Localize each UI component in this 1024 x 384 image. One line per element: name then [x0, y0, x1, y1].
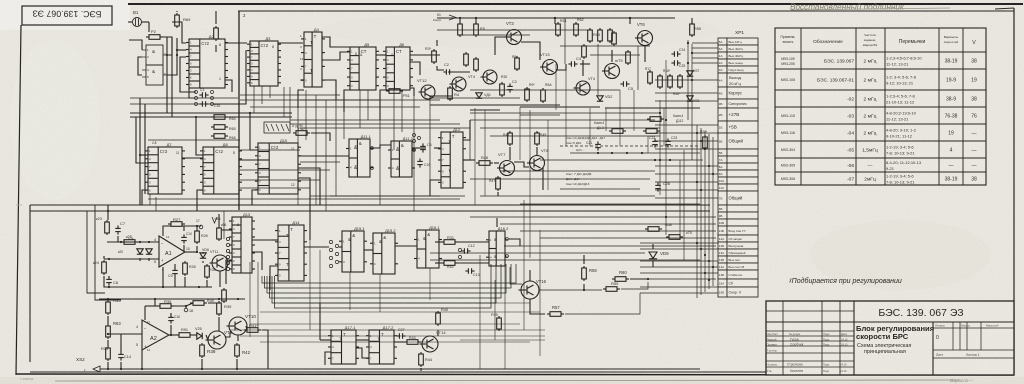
XP1 pin 5Б	[718, 149, 727, 156]
wire	[700, 128, 702, 295]
wire	[437, 330, 439, 336]
resistor R11	[556, 22, 561, 37]
wire	[260, 341, 530, 343]
XP1 pin 14Б Стабилиз.	[718, 270, 727, 279]
wire	[298, 168, 320, 205]
wire	[174, 264, 176, 269]
resistor R68	[645, 227, 662, 232]
capacitor C24	[671, 51, 680, 57]
wire	[590, 54, 640, 56]
capacitor C8	[106, 276, 112, 285]
wire	[142, 49, 146, 51]
resistor R33	[106, 300, 111, 315]
wire	[597, 44, 599, 95]
IC Д17.2	[366, 330, 397, 364]
resistor R8	[515, 56, 520, 71]
wire	[182, 225, 201, 227]
wire	[497, 192, 499, 196]
junction	[583, 289, 585, 291]
wire	[148, 258, 150, 261]
resistor R18b	[668, 74, 673, 89]
wire	[300, 99, 440, 101]
wire	[692, 42, 718, 44]
wire	[202, 261, 204, 263]
XP1 pin 2Б +27В	[718, 108, 727, 121]
junction	[162, 286, 164, 288]
capacitor C19	[417, 158, 423, 167]
wire	[104, 258, 159, 260]
wire	[240, 94, 340, 96]
resistor R66	[211, 134, 228, 139]
wire	[300, 161, 340, 163]
wire	[267, 264, 506, 293]
wire	[222, 229, 232, 231]
wire	[463, 159, 475, 161]
IC Д15.2	[370, 233, 398, 274]
wire	[356, 339, 369, 341]
gate output circles	[506, 238, 509, 241]
wire	[319, 250, 321, 303]
diode VD9	[649, 252, 657, 259]
junction	[696, 132, 698, 134]
wire	[311, 133, 330, 141]
XP1 pin 5А Вых.10Гц	[718, 38, 727, 45]
wire	[370, 145, 391, 148]
wire	[197, 190, 203, 211]
wire	[310, 195, 440, 197]
wire	[580, 63, 590, 65]
jumper pads 20 21	[413, 134, 416, 137]
wire	[107, 205, 109, 220]
junction	[139, 154, 141, 156]
diode VD6	[200, 253, 206, 258]
XP1 pin 14А Вых.счетч.В	[718, 263, 727, 270]
wire	[652, 244, 654, 249]
resistor R70	[666, 235, 683, 240]
resistor R37	[176, 333, 193, 338]
wire	[605, 108, 607, 131]
wire	[142, 56, 146, 58]
wire	[305, 90, 307, 140]
wire	[196, 117, 203, 155]
wire	[246, 326, 247, 330]
wire	[129, 40, 142, 50]
resistor R69b	[647, 117, 664, 122]
junction	[704, 148, 706, 150]
resistor R48	[476, 161, 493, 166]
wire	[611, 50, 613, 62]
wire	[261, 86, 263, 104]
wire	[176, 11, 178, 12]
wire	[144, 104, 146, 194]
wire	[272, 264, 496, 303]
wire	[208, 301, 219, 303]
XP1 pin 11Б Вход Син.Т.Г.	[718, 226, 727, 235]
wire	[319, 303, 321, 340]
junction	[166, 54, 168, 56]
wire	[430, 97, 520, 99]
junction	[654, 159, 656, 161]
XP1 pin 3Б Синхрониз	[718, 99, 727, 108]
dashed wire	[560, 145, 700, 147]
wire	[283, 87, 285, 117]
arrow	[449, 15, 456, 20]
wire	[172, 22, 186, 43]
diode VD1	[476, 93, 482, 98]
wire	[145, 305, 157, 307]
wire	[163, 74, 167, 76]
wire	[325, 100, 327, 211]
wire	[413, 96, 415, 211]
IC Д6	[383, 47, 413, 90]
XP1 pin 15А Сб	[718, 279, 727, 287]
wire	[683, 150, 685, 260]
wire	[655, 197, 718, 199]
transistor VT2	[481, 70, 498, 84]
wire	[148, 139, 240, 141]
wire	[322, 37, 350, 47]
wire	[647, 136, 649, 153]
wire	[652, 261, 654, 267]
wire	[692, 52, 718, 54]
resistor R1a	[458, 22, 463, 37]
resistor R63	[106, 324, 111, 339]
wire	[278, 42, 303, 44]
IC Д11.1	[346, 139, 373, 177]
wire	[185, 251, 196, 253]
IC Д3	[247, 41, 281, 86]
junction	[712, 173, 714, 175]
junction	[700, 189, 702, 191]
wire	[99, 298, 245, 300]
resistor R64	[211, 115, 228, 120]
wire	[520, 114, 560, 116]
wire	[547, 120, 549, 190]
resistor R2b	[214, 26, 219, 41]
wire	[436, 40, 438, 46]
stamp БЭС.139.067 ЭЗ	[22, 6, 112, 25]
wire	[430, 95, 452, 97]
resistor R48*	[678, 74, 683, 89]
IC Д16.2	[486, 231, 508, 266]
junction	[148, 241, 150, 243]
XP1 pin 9А	[718, 170, 727, 177]
bus wire	[30, 210, 710, 212]
wire	[226, 260, 232, 284]
resistor R38	[200, 343, 205, 358]
IC Д15.1	[339, 231, 367, 272]
junction	[708, 165, 710, 167]
IC Д4	[301, 32, 325, 87]
wire	[238, 11, 240, 210]
wire	[564, 18, 566, 64]
resistor R52	[441, 261, 458, 266]
capacitor C28	[655, 182, 661, 191]
crystal B1	[133, 18, 142, 27]
junction	[170, 334, 172, 336]
wire	[196, 226, 198, 229]
wire	[202, 252, 204, 254]
junction	[176, 49, 178, 51]
wire	[240, 335, 545, 337]
wire	[300, 127, 470, 129]
wire	[215, 45, 217, 52]
wire	[219, 271, 221, 287]
wire	[582, 60, 584, 76]
wire	[364, 249, 373, 251]
wire	[692, 47, 718, 49]
resistor R40a	[190, 301, 207, 306]
wire	[640, 242, 718, 244]
junction	[597, 152, 599, 154]
wire	[429, 96, 431, 180]
XP1 pin 7Б Общий	[718, 191, 727, 205]
wire	[520, 106, 600, 108]
wire	[343, 112, 345, 139]
wire	[644, 46, 646, 62]
wire	[309, 240, 311, 330]
resistor R18	[658, 74, 663, 89]
resistor R56	[217, 226, 222, 241]
wire	[87, 211, 105, 293]
junction	[659, 112, 661, 114]
junction	[665, 119, 667, 121]
wire	[344, 90, 350, 112]
resistor R47	[496, 176, 501, 191]
wire	[500, 170, 655, 172]
XP1 pin 15Б Скор. V	[718, 287, 727, 297]
wire	[640, 260, 718, 262]
junction	[141, 368, 143, 370]
wire	[429, 268, 431, 300]
transistor VT16	[519, 281, 540, 299]
wire	[240, 99, 380, 101]
wire	[430, 259, 700, 261]
resistor R62	[574, 22, 579, 37]
wire	[130, 103, 239, 105]
resistor R31	[441, 240, 458, 245]
connector XS2 arrow	[93, 366, 100, 372]
junction	[687, 62, 689, 64]
testpoint 18	[184, 308, 188, 312]
wire	[349, 272, 351, 310]
wire	[484, 110, 486, 196]
wire	[130, 97, 238, 99]
XP1 pin 6А Вых.40кГц	[718, 45, 727, 52]
diode VD3	[137, 249, 143, 254]
wire	[430, 252, 645, 254]
wire	[565, 293, 640, 314]
capacitor C3	[507, 83, 513, 92]
resistor R59	[603, 287, 620, 292]
wire	[201, 359, 203, 369]
resistor R40	[436, 311, 441, 326]
wire	[470, 178, 650, 180]
wire	[169, 334, 176, 336]
IC Д11.2	[388, 141, 415, 177]
resistor R53a	[609, 129, 626, 134]
wire	[663, 108, 665, 146]
wire	[637, 46, 639, 90]
wire	[435, 241, 441, 243]
wire	[556, 64, 566, 70]
wire	[218, 317, 220, 331]
capacitor C13	[465, 268, 474, 274]
junction	[629, 17, 631, 19]
wire	[252, 252, 262, 270]
wire	[509, 239, 520, 246]
jumper pads	[195, 91, 198, 94]
wire	[655, 79, 718, 81]
junction	[669, 159, 671, 161]
wire	[540, 159, 703, 161]
bus tag	[264, 122, 290, 133]
wire	[460, 339, 545, 341]
wire	[480, 195, 655, 197]
XP1 pin 6Б Общий	[718, 133, 727, 149]
wire	[161, 37, 167, 55]
XP1 pin 13А Образцовый	[718, 249, 727, 256]
capacitor C4	[568, 61, 577, 67]
wire	[142, 190, 148, 205]
wire	[155, 197, 157, 211]
wire	[170, 313, 172, 317]
wire	[206, 335, 208, 340]
resistor R28	[195, 229, 200, 244]
capacitor C10	[181, 234, 187, 243]
wire	[514, 162, 529, 167]
wire	[225, 332, 230, 337]
wire	[225, 42, 247, 44]
XP1 pin 12А Сб.запрет	[718, 235, 727, 242]
wire	[182, 157, 203, 159]
resistor R14	[608, 28, 613, 43]
resistor R17	[648, 70, 653, 85]
wire	[262, 264, 516, 283]
diode VD5	[197, 333, 202, 339]
diode VD4	[146, 249, 152, 254]
XP1 pin 8Б	[718, 205, 727, 212]
wire	[504, 260, 506, 369]
resistor R55	[690, 22, 695, 37]
wire	[500, 223, 716, 225]
capacitor C22	[652, 138, 658, 147]
junction	[700, 140, 702, 142]
wire	[469, 120, 471, 160]
transistor VT14	[420, 336, 439, 352]
junction	[201, 368, 203, 370]
IC Д14	[275, 225, 307, 281]
junction	[176, 54, 178, 56]
wire	[174, 306, 186, 308]
wire	[315, 95, 317, 205]
wire	[120, 334, 122, 352]
wire	[240, 169, 330, 171]
wire	[250, 323, 520, 325]
resistor R25	[121, 240, 138, 245]
resistor R2	[146, 35, 163, 40]
wire	[162, 267, 164, 287]
wire	[640, 248, 718, 250]
wire	[494, 280, 496, 340]
resistor R41*	[244, 328, 261, 333]
wire	[322, 80, 336, 100]
junction	[554, 17, 556, 19]
wire	[240, 149, 300, 151]
transistor VT3	[504, 30, 522, 45]
wire	[379, 274, 381, 312]
wire	[696, 125, 698, 298]
wire	[655, 189, 718, 191]
wire	[560, 45, 650, 47]
wire	[289, 87, 291, 124]
IC Д12	[438, 132, 466, 188]
wire	[215, 11, 217, 24]
wire	[536, 147, 538, 155]
XP1 pin 1Б +5В	[718, 121, 727, 133]
bus wire	[130, 116, 292, 118]
wire	[401, 90, 403, 132]
jumper pads near D13	[226, 237, 229, 240]
wire	[712, 137, 714, 286]
table of speed variants	[775, 28, 986, 185]
wire	[510, 267, 522, 284]
junction	[696, 242, 698, 244]
resistor R35	[157, 304, 174, 309]
resistor R5A	[541, 88, 546, 103]
junction	[237, 298, 239, 300]
junction	[659, 159, 661, 161]
transistor VT8	[527, 156, 545, 171]
junction	[196, 251, 198, 253]
wire	[142, 69, 146, 71]
junction	[691, 79, 693, 81]
wire	[144, 306, 146, 320]
wire	[410, 88, 414, 96]
wire	[520, 203, 700, 205]
wire	[521, 42, 540, 60]
wire	[621, 282, 648, 289]
resistor R30	[205, 264, 210, 279]
wire	[149, 194, 151, 205]
junction	[641, 152, 643, 154]
wire	[494, 162, 499, 164]
wire	[107, 316, 109, 324]
XP1 pin 3А Гирус.вход	[718, 66, 727, 73]
transistor VT4b	[574, 81, 591, 95]
XP1 pin 4Б Корпус	[718, 87, 727, 99]
capacitor C12	[461, 248, 470, 254]
IC Д17.1	[328, 330, 359, 364]
wire	[437, 17, 675, 19]
junction	[108, 258, 110, 260]
junction	[107, 368, 109, 370]
resistor R60	[612, 277, 629, 282]
bus wire	[130, 112, 292, 114]
wire	[648, 278, 716, 280]
wire	[142, 76, 146, 78]
resistor R34	[106, 346, 111, 361]
resistor R3*	[432, 49, 437, 64]
wire	[655, 100, 718, 102]
junction	[154, 298, 156, 300]
wire	[633, 90, 635, 131]
wire	[257, 262, 259, 330]
wire	[236, 359, 238, 369]
capacitor C1	[199, 92, 208, 98]
wire	[496, 218, 498, 227]
junction	[120, 241, 122, 243]
